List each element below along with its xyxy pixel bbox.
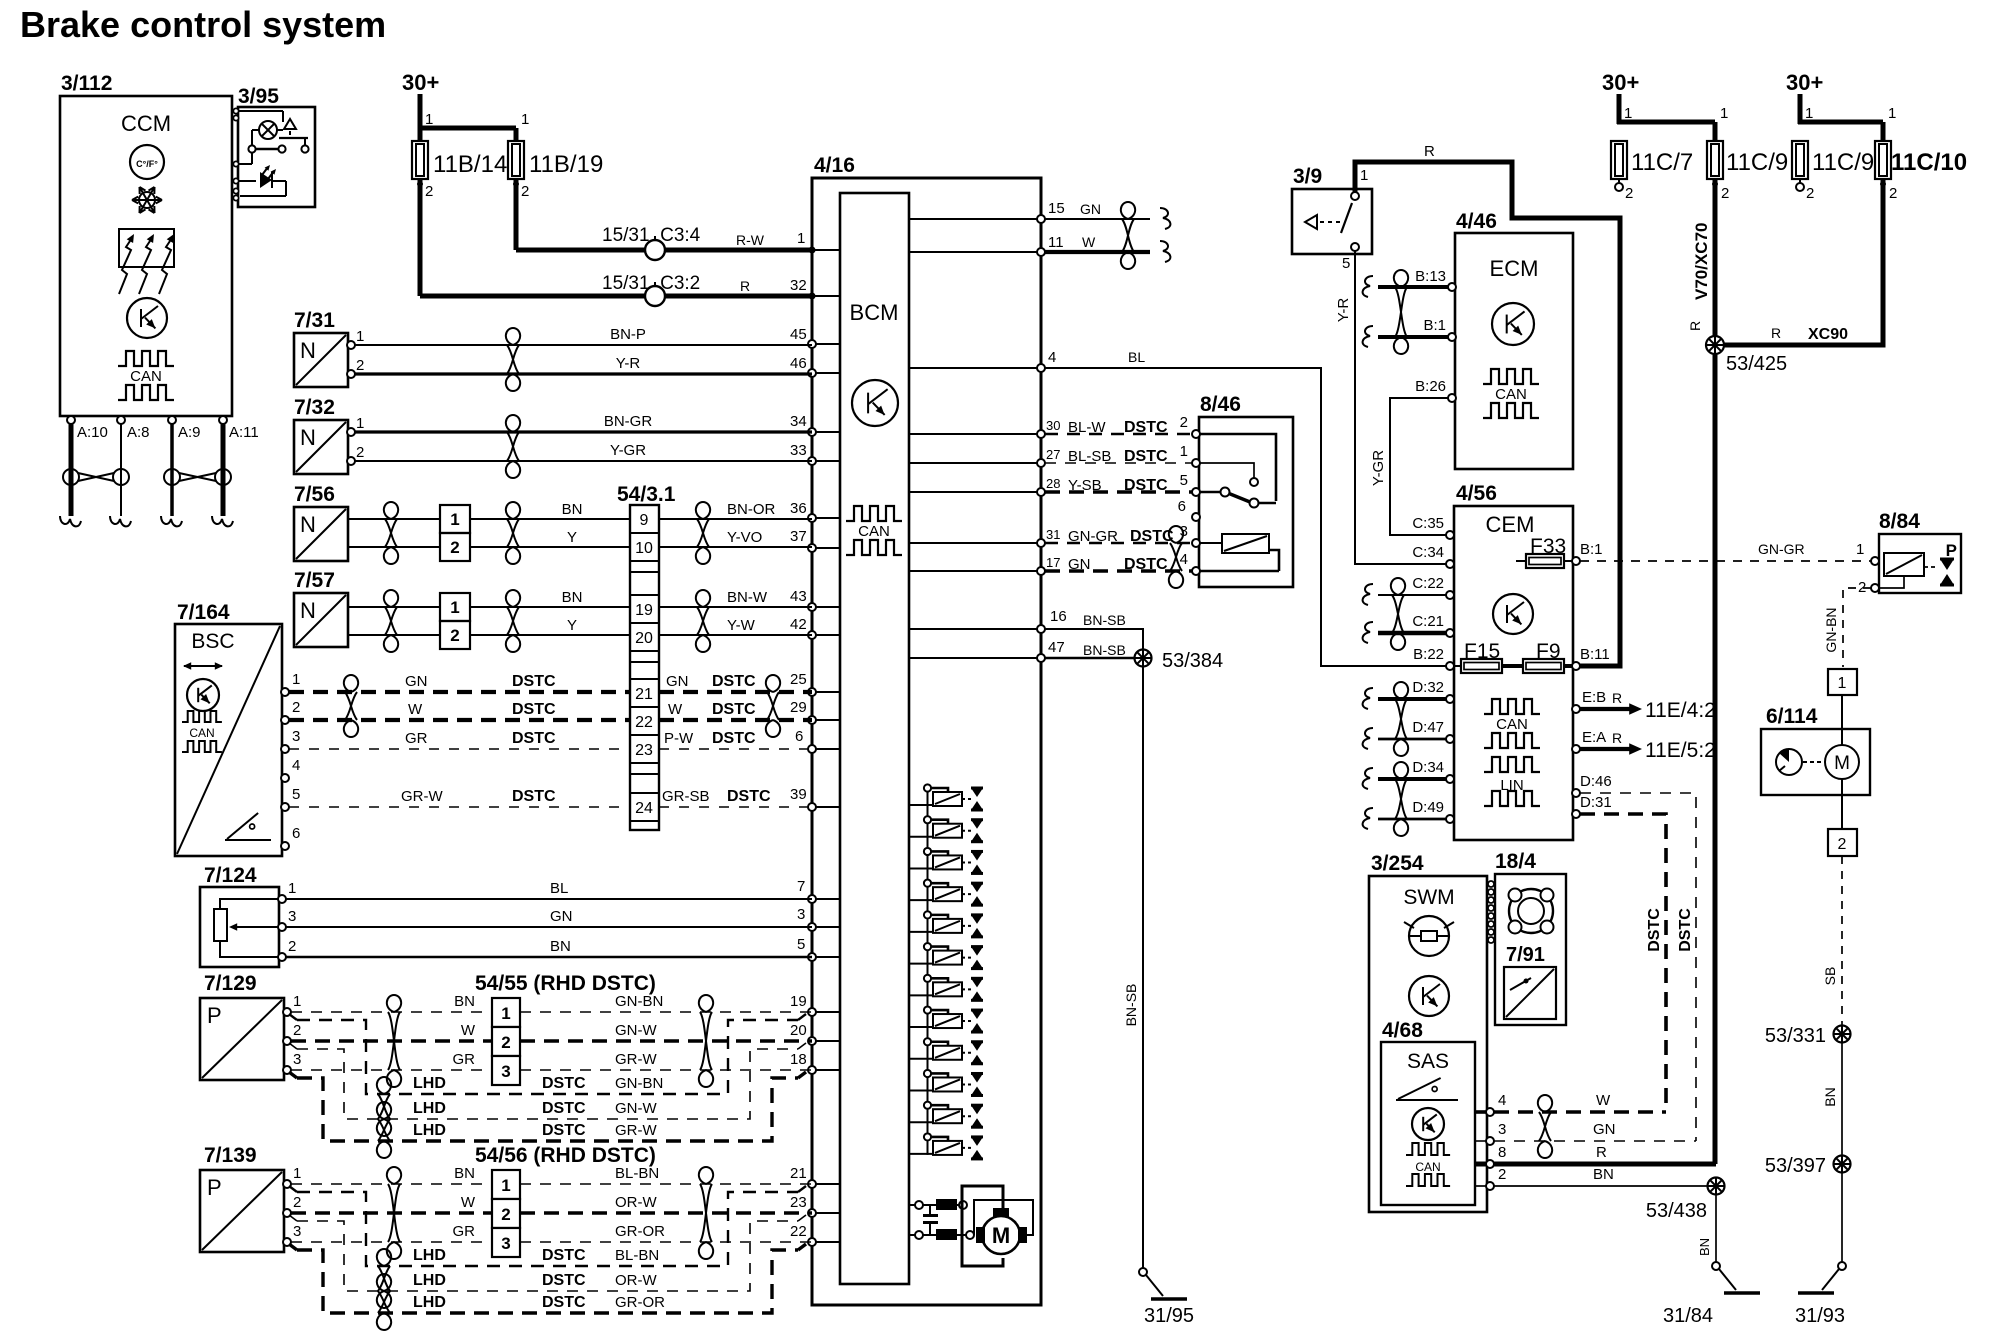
svg-text:D:46: D:46 [1580, 773, 1612, 790]
wire BN-SB down to ground [1123, 667, 1143, 1268]
valve V6 [909, 943, 983, 969]
svg-text:LHD: LHD [413, 1247, 446, 1264]
wire E:B R to 11E/4:2 [1580, 690, 1716, 722]
svg-text:17: 17 [1046, 555, 1060, 570]
inline connector 2 [1828, 829, 1857, 856]
wire W/GN-W to BCM pin 20 [291, 1022, 812, 1041]
svg-text:GR: GR [453, 1223, 476, 1240]
wire BN splice to splice 53/397 [1822, 1043, 1842, 1155]
svg-text:18: 18 [790, 1051, 807, 1068]
CCM twisted pairs [63, 469, 231, 485]
main R feed down to SAS pin 8 [1713, 354, 1718, 1164]
twisted pair 31/17 [1169, 526, 1183, 588]
svg-text:B:11: B:11 [1580, 646, 1610, 663]
wire GN-GR from CEM B:1 to 8/84 [1580, 541, 1871, 561]
svg-text:P: P [207, 1175, 222, 1200]
svg-text:1: 1 [450, 598, 459, 617]
svg-text:BN: BN [1593, 1166, 1614, 1183]
BCM right pins [909, 215, 1045, 662]
svg-text:3/95: 3/95 [238, 85, 279, 108]
svg-text:C:21: C:21 [1412, 613, 1444, 630]
svg-text:R: R [1596, 1144, 1607, 1161]
svg-text:A:8: A:8 [127, 424, 150, 441]
svg-text:W: W [461, 1022, 476, 1039]
svg-text:CAN: CAN [130, 368, 162, 385]
svg-text:1: 1 [1838, 675, 1847, 692]
svg-text:LHD: LHD [413, 1294, 446, 1311]
fuse F9 [1523, 640, 1572, 673]
svg-text:DSTC: DSTC [712, 730, 756, 747]
LHD wire GN-W [289, 1043, 806, 1119]
svg-text:GN-BN: GN-BN [1823, 607, 1839, 652]
svg-text:C:22: C:22 [1412, 575, 1444, 592]
LHD wire OR-W [289, 1215, 806, 1291]
BCM inner box [840, 193, 909, 1284]
wire GR/GR-W to BCM pin 18 [291, 1051, 812, 1070]
wire GN DSTC from BSC pin 1 to pin 25 [289, 671, 812, 692]
svg-text:C:34: C:34 [1412, 544, 1444, 561]
wires D:34/D:49 with twisted pair [1363, 762, 1446, 836]
svg-text:BN-SB: BN-SB [1083, 612, 1126, 628]
svg-text:7: 7 [797, 878, 805, 895]
svg-text:3: 3 [1498, 1121, 1506, 1138]
module BCM 4/16 outer box [812, 154, 1041, 1305]
CCM heated-window icon [119, 229, 174, 294]
wire BN/BL-BN to BCM pin 21 [291, 1165, 812, 1184]
svg-text:GR: GR [453, 1051, 476, 1068]
svg-text:7/139: 7/139 [204, 1144, 257, 1167]
svg-text:11E/5:2: 11E/5:2 [1645, 739, 1716, 762]
sensor 7/124 (potentiometer) [200, 864, 296, 967]
LHD wire GR-W [289, 1072, 806, 1141]
splice 53/397 [1765, 1155, 1851, 1177]
wire GN-GR DSTC pin 31 to 8/46 pin 3 [1045, 523, 1192, 545]
svg-text:GN: GN [1080, 201, 1101, 217]
wire DSTC (thick) D:31 to SAS W wire [1580, 814, 1666, 1112]
svg-text:DSTC: DSTC [542, 1122, 586, 1139]
svg-text:1: 1 [521, 111, 529, 128]
wire E:A R to 11E/5:2 [1580, 730, 1716, 762]
svg-text:BN: BN [1697, 1238, 1712, 1256]
svg-text:2: 2 [356, 357, 364, 374]
svg-text:30+: 30+ [402, 70, 439, 95]
svg-text:25: 25 [790, 671, 807, 688]
wire GN 7/124 pin3 to BCM pin 3 [286, 906, 812, 927]
svg-text:BN: BN [550, 938, 571, 955]
svg-text:SB: SB [1822, 967, 1838, 986]
svg-text:B:1: B:1 [1580, 541, 1603, 558]
svg-text:27: 27 [1046, 447, 1060, 462]
svg-text:2: 2 [521, 183, 529, 200]
svg-text:W: W [461, 1194, 476, 1211]
svg-text:1: 1 [293, 993, 301, 1010]
svg-text:2: 2 [1838, 836, 1847, 853]
svg-text:LHD: LHD [413, 1100, 446, 1117]
svg-text:CAN: CAN [189, 726, 214, 740]
CCM snowflake icon [132, 187, 162, 213]
svg-text:BN-GR: BN-GR [604, 413, 653, 430]
svg-text:8: 8 [1498, 1144, 1506, 1161]
CCM gauge icon [127, 298, 167, 338]
svg-text:4: 4 [1180, 551, 1188, 568]
svg-text:1: 1 [288, 880, 296, 897]
valve V5 [909, 911, 983, 937]
fuse 11C/9 [1707, 141, 1788, 202]
svg-text:53/331: 53/331 [1765, 1025, 1826, 1047]
SWM gauge icon [1409, 976, 1449, 1016]
ground 31/95 [1139, 1268, 1194, 1327]
svg-text:54/55 (RHD DSTC): 54/55 (RHD DSTC) [475, 972, 656, 995]
svg-text:3: 3 [293, 1223, 301, 1240]
svg-text:GN-W: GN-W [615, 1022, 657, 1039]
wire GN-BN from 8/84 pin 2 [1823, 588, 1871, 667]
svg-text:11B/19: 11B/19 [529, 151, 603, 178]
svg-text:3/9: 3/9 [1293, 165, 1322, 188]
svg-text:BSC: BSC [191, 630, 234, 653]
svg-text:N: N [300, 425, 316, 450]
svg-text:GR-W: GR-W [615, 1051, 657, 1068]
shut-off valve 8/84 [1858, 510, 1961, 596]
svg-text:DSTC: DSTC [727, 788, 771, 805]
wire GR-W DSTC from BSC pin 5 to pin 39 [289, 786, 812, 807]
wire GN BCM pin 15 [1045, 200, 1150, 219]
LHD wire BL-BN [289, 1186, 806, 1266]
svg-text:1: 1 [292, 671, 300, 688]
svg-text:30: 30 [1046, 418, 1060, 433]
svg-text:Y-W: Y-W [727, 617, 756, 634]
svg-text:2: 2 [293, 1194, 301, 1211]
svg-text:1: 1 [425, 111, 433, 128]
svg-text:E:B: E:B [1582, 689, 1606, 706]
module BSC 7/164 [175, 601, 282, 856]
svg-text:Y: Y [567, 617, 577, 634]
svg-text:BN: BN [562, 589, 583, 606]
svg-text:43: 43 [790, 588, 807, 605]
svg-text:Y: Y [567, 529, 577, 546]
svg-text:BL-BN: BL-BN [615, 1247, 659, 1264]
svg-text:11E/4:2: 11E/4:2 [1645, 699, 1716, 722]
svg-text:LHD: LHD [413, 1122, 446, 1139]
svg-text:20: 20 [790, 1022, 807, 1039]
svg-text:W: W [1596, 1092, 1611, 1109]
svg-text:CEM: CEM [1486, 512, 1535, 537]
svg-text:2: 2 [1806, 185, 1814, 202]
valve V11 [909, 1102, 983, 1128]
valve V3 [909, 848, 983, 874]
svg-text:6/114: 6/114 [1766, 705, 1818, 728]
svg-text:N: N [300, 598, 316, 623]
svg-text:28: 28 [1046, 476, 1060, 491]
svg-text:1: 1 [1624, 105, 1632, 122]
svg-text:5: 5 [292, 786, 300, 803]
svg-text:A:9: A:9 [178, 424, 201, 441]
splice 53/425 [1706, 336, 1787, 375]
wire BL 7/124 pin1 to BCM pin 7 [286, 878, 812, 899]
twisted pair W/GN [1538, 1095, 1552, 1158]
wire R 15/31_C3:2 to BCM pin 32 [420, 179, 812, 306]
pump unit 6/114 [1761, 695, 1870, 829]
svg-text:P: P [1946, 541, 1957, 560]
svg-text:R: R [1612, 690, 1622, 706]
svg-text:GR: GR [405, 730, 428, 747]
wire SB to splice 53/331 [1822, 856, 1842, 1025]
valve V4 [909, 880, 983, 906]
svg-text:DSTC: DSTC [542, 1294, 586, 1311]
wire BL-W DSTC pin 30 to 8/46 pin 2 [1045, 414, 1192, 436]
splice 53/438 [1646, 1178, 1725, 1223]
wires C:22/C:21 with twisted pair [1363, 578, 1446, 650]
svg-text:3: 3 [797, 906, 805, 923]
svg-text:2: 2 [425, 183, 433, 200]
svg-text:4/68: 4/68 [1382, 1019, 1423, 1042]
svg-text:W: W [668, 701, 683, 718]
svg-text:7/164: 7/164 [177, 601, 230, 624]
svg-text:7/32: 7/32 [294, 396, 335, 419]
svg-text:C:35: C:35 [1412, 515, 1444, 532]
svg-text:P: P [207, 1003, 222, 1028]
svg-text:5: 5 [797, 936, 805, 953]
wheel sensor 7/57 via connector 54/3.1 cells 19/20 to pins 43/42 [294, 569, 812, 652]
svg-text:6: 6 [795, 728, 803, 745]
svg-text:B:1: B:1 [1423, 317, 1446, 334]
svg-text:4/16: 4/16 [814, 154, 855, 177]
svg-text:DSTC: DSTC [542, 1272, 586, 1289]
svg-text:SAS: SAS [1407, 1050, 1449, 1073]
svg-text:Y-VO: Y-VO [727, 529, 762, 546]
svg-text:53/425: 53/425 [1726, 353, 1787, 375]
svg-text:R: R [740, 278, 750, 294]
svg-text:CCM: CCM [121, 111, 171, 136]
module CCM 3/112 box [60, 72, 232, 416]
ground 31/93 [1795, 1262, 1846, 1327]
BCM valve supply bus [927, 788, 929, 1155]
svg-text:32: 32 [790, 277, 807, 294]
svg-text:BL-BN: BL-BN [615, 1165, 659, 1182]
SWM steering wheel icon [1404, 916, 1454, 956]
svg-text:Y-GR: Y-GR [610, 442, 646, 459]
module SAS 4/68 [1381, 1019, 1475, 1205]
svg-text:30+: 30+ [1786, 70, 1823, 95]
svg-text:24: 24 [635, 800, 653, 817]
svg-text:3/254: 3/254 [1371, 852, 1424, 875]
svg-text:GR-OR: GR-OR [615, 1294, 665, 1311]
svg-text:BN: BN [454, 1165, 475, 1182]
power feed 30+ (XC90) [1786, 70, 1823, 124]
svg-text:1: 1 [293, 1165, 301, 1182]
LHD twisted pairs [377, 1249, 391, 1330]
svg-text:R-W: R-W [736, 232, 765, 248]
splice 53/384 [1135, 650, 1224, 673]
svg-text:3: 3 [288, 908, 296, 925]
svg-text:8/46: 8/46 [1200, 393, 1241, 416]
clock spring 18/4 [1495, 850, 1566, 1025]
LHD twisted pairs [377, 1077, 391, 1158]
wire GN DSTC pin 17 to 8/46 pin 4 [1045, 551, 1192, 573]
svg-text:GN: GN [1593, 1121, 1616, 1138]
svg-text:7/57: 7/57 [294, 569, 335, 592]
svg-text:W: W [408, 701, 423, 718]
svg-text:2: 2 [501, 1205, 510, 1224]
wire DSTC (thin) D:46 to SAS GN wire [1580, 793, 1696, 1141]
svg-text:DSTC: DSTC [712, 701, 756, 718]
svg-text:R: R [1771, 325, 1781, 341]
inline connector 1 [1828, 669, 1857, 695]
svg-text:5: 5 [1342, 255, 1350, 272]
wire BN-SB pin 16 [1045, 608, 1143, 650]
svg-text:18/4: 18/4 [1495, 850, 1536, 873]
CEM right pins [1572, 541, 1612, 818]
svg-text:4/46: 4/46 [1456, 210, 1497, 233]
svg-text:DSTC: DSTC [1646, 908, 1663, 952]
svg-text:23: 23 [635, 742, 653, 759]
svg-text:34: 34 [790, 413, 807, 430]
svg-text:1: 1 [797, 230, 805, 247]
wire R from 3/9 pin 1 to CEM B:11 via F9 [1355, 143, 1620, 666]
wire GN from SAS pin 3 [1475, 1121, 1696, 1141]
fuse 11B/19 [508, 141, 603, 200]
svg-text:GN-W: GN-W [615, 1100, 657, 1117]
svg-text:31: 31 [1046, 527, 1060, 542]
wires D:32/D:47 with twisted pair [1363, 682, 1446, 756]
svg-text:47: 47 [1048, 639, 1065, 656]
fuse F33 [1516, 535, 1572, 568]
ECM pins B:13 B:1 B:26 [1415, 268, 1456, 402]
valve V7 [909, 975, 983, 1001]
wire W from SAS pin 4 [1475, 1092, 1666, 1112]
svg-text:Y-R: Y-R [1335, 298, 1352, 323]
svg-text:A:11: A:11 [229, 424, 259, 441]
wheel sensor 7/56 via connector 54/3.1 cells 9/10 to pins 36/37 [294, 483, 812, 564]
svg-text:GR-OR: GR-OR [615, 1223, 665, 1240]
wire to fuses 11C/9b and 11C/10 [1798, 105, 1896, 141]
CEM left pins [1412, 515, 1454, 823]
svg-text:OR-W: OR-W [615, 1272, 657, 1289]
svg-text:2: 2 [356, 444, 364, 461]
svg-text:Y-GR: Y-GR [1370, 450, 1387, 486]
svg-text:37: 37 [790, 528, 807, 545]
svg-text:BN-SB: BN-SB [1123, 984, 1139, 1027]
svg-text:BN: BN [1822, 1087, 1838, 1106]
svg-text:11C/10: 11C/10 [1891, 149, 1967, 176]
svg-text:CAN: CAN [1496, 716, 1528, 733]
svg-text:11: 11 [1048, 234, 1064, 251]
svg-text:BN-SB: BN-SB [1083, 642, 1126, 658]
connector dots between SWM and 18/4 [1488, 881, 1494, 943]
svg-text:B:22: B:22 [1413, 646, 1444, 663]
svg-text:M: M [1834, 753, 1850, 774]
connector 54/56 (RHD DSTC) [475, 1144, 656, 1257]
svg-text:23: 23 [790, 1194, 807, 1211]
twisted pairs on BSC wires [344, 675, 780, 737]
svg-text:21: 21 [635, 686, 653, 703]
wire to fuses 11C/7 and 11C/9 [1617, 105, 1728, 141]
svg-text:GN-BN: GN-BN [615, 1075, 663, 1092]
svg-text:XC90: XC90 [1808, 326, 1848, 343]
svg-text:DSTC: DSTC [1677, 908, 1694, 952]
svg-text:7/91: 7/91 [1506, 944, 1545, 966]
svg-text:22: 22 [790, 1223, 807, 1240]
svg-text:M: M [992, 1223, 1010, 1248]
twisted pairs [387, 995, 713, 1087]
svg-text:DSTC: DSTC [542, 1247, 586, 1264]
connector 54/55 (RHD DSTC) [475, 972, 656, 1085]
svg-text:2: 2 [1498, 1166, 1506, 1183]
svg-text:1: 1 [356, 328, 364, 345]
svg-text:4: 4 [292, 757, 300, 774]
svg-text:2: 2 [1889, 185, 1897, 202]
svg-text:P-W: P-W [664, 730, 694, 747]
svg-text:4: 4 [1048, 349, 1056, 366]
fuse F15 [1454, 640, 1523, 673]
svg-text:CAN: CAN [1415, 1160, 1440, 1174]
svg-text:42: 42 [790, 616, 807, 633]
svg-text:11B/14: 11B/14 [433, 151, 507, 178]
wheel sensor 7/32 with wires BN-GR/Y-GR to pins 34/33 [294, 396, 812, 478]
svg-text:6: 6 [292, 825, 300, 842]
twisted pair GN/W [1121, 202, 1171, 269]
switch unit 3/95 [233, 85, 315, 207]
svg-text:45: 45 [790, 326, 807, 343]
svg-text:BN-W: BN-W [727, 589, 768, 606]
svg-text:6: 6 [1178, 498, 1186, 515]
pump suppression resistors and capacitor [909, 1199, 974, 1240]
svg-text:1: 1 [356, 415, 364, 432]
svg-text:DSTC: DSTC [512, 730, 556, 747]
svg-text:GN-GR: GN-GR [1758, 541, 1805, 557]
svg-text:GR-W: GR-W [401, 788, 443, 805]
svg-text:GN-BN: GN-BN [615, 993, 663, 1010]
svg-text:7/31: 7/31 [294, 309, 335, 332]
wire BN/GN-BN to BCM pin 19 [291, 993, 812, 1012]
svg-text:GN: GN [666, 673, 689, 690]
BCM left pins [808, 247, 840, 1247]
svg-text:1: 1 [1180, 443, 1188, 460]
svg-text:1: 1 [501, 1004, 510, 1023]
svg-text:54/56 (RHD DSTC): 54/56 (RHD DSTC) [475, 1144, 656, 1167]
SAS pins 4 3 8 2 [1486, 1092, 1506, 1190]
BCM CAN icon [846, 506, 902, 555]
svg-text:1: 1 [1856, 541, 1864, 558]
svg-text:DSTC: DSTC [512, 673, 556, 690]
connector 54/3.1 column [617, 483, 676, 830]
fuse 11C/7 [1611, 141, 1693, 202]
svg-text:D:34: D:34 [1412, 759, 1444, 776]
svg-text:2: 2 [1625, 185, 1633, 202]
wire BN from SAS pin 2 to splice 53/438 [1475, 1166, 1708, 1186]
svg-text:22: 22 [635, 714, 653, 731]
svg-text:3: 3 [292, 728, 300, 745]
wire W DSTC from BSC pin 2 to pin 29 [289, 699, 812, 720]
fuse 11B/14 [412, 141, 507, 200]
wire W/OR-W to BCM pin 23 [291, 1194, 812, 1213]
svg-text:A:10: A:10 [77, 424, 108, 441]
svg-text:OR-W: OR-W [615, 1194, 657, 1211]
svg-text:N: N [300, 338, 316, 363]
svg-text:20: 20 [635, 630, 653, 647]
svg-text:BL: BL [550, 880, 568, 897]
wire R-W 15/31_C3:4 to BCM pin 1 [516, 179, 812, 260]
wires to B:13/B:1 with twisted pair [1363, 270, 1448, 354]
svg-text:B:13: B:13 [1415, 268, 1446, 285]
svg-text:19: 19 [790, 993, 807, 1010]
svg-text:C°/F°: C°/F° [136, 159, 158, 169]
wire W BCM pin 11 [1045, 234, 1150, 252]
wire BN 7/124 pin2 to BCM pin 5 [286, 936, 812, 957]
svg-text:B:26: B:26 [1415, 378, 1446, 395]
svg-text:BL: BL [1128, 349, 1145, 365]
pressure sensor 7/139 [200, 1144, 301, 1252]
svg-text:9: 9 [640, 512, 649, 529]
